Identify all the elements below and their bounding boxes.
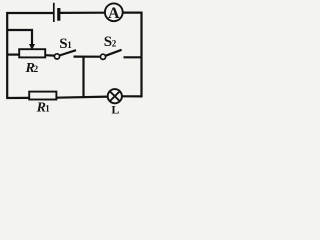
lamp L <box>108 89 122 103</box>
svg-text:A: A <box>108 5 120 22</box>
label S2 <box>104 34 117 50</box>
wire left rail to R2 <box>7 53 20 55</box>
svg-text:2: 2 <box>34 64 39 74</box>
wire ammeter to top-right corner <box>123 12 143 14</box>
svg-text:1: 1 <box>67 40 72 50</box>
switch S2 <box>100 50 121 60</box>
svg-text:1: 1 <box>45 103 50 113</box>
wire bottom-left (left rail to R1) <box>6 97 29 99</box>
wire left rail <box>6 12 8 99</box>
label R1 <box>36 100 51 115</box>
wire top-left (battery to top-left corner) <box>6 12 54 14</box>
svg-text:L: L <box>111 102 119 116</box>
label S1 <box>59 36 72 52</box>
battery <box>54 3 59 22</box>
resistor R1 <box>29 92 56 100</box>
rheostat R2 wiper arrowhead <box>29 44 35 50</box>
wire wiper drop (down to R2 arrow) <box>31 29 33 46</box>
svg-text:2: 2 <box>112 39 117 49</box>
wire junction drop (middle row to bottom row) <box>82 56 84 98</box>
wire R2 to S1 <box>45 54 55 57</box>
wire right rail <box>140 12 142 98</box>
label R2 <box>25 61 39 76</box>
wire battery to ammeter <box>60 12 105 14</box>
wire R1 to lamp <box>56 97 108 98</box>
wire wiper feed (left rail to wiper drop) <box>7 29 34 31</box>
switch S1 <box>54 50 76 59</box>
wire S1 to S2 (through junction) <box>74 55 101 57</box>
ammeter A <box>105 3 123 21</box>
rheostat R2 <box>19 49 45 57</box>
wire S2 to right rail <box>124 56 143 58</box>
wire lamp to right rail <box>122 95 142 97</box>
